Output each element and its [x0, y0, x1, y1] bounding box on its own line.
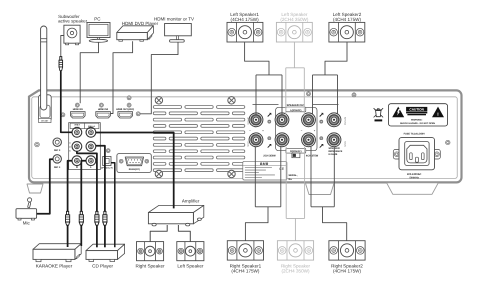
svg-text:PC: PC — [94, 16, 101, 21]
svg-text:Amplifier: Amplifier — [182, 198, 200, 203]
binding post top 1 — [249, 113, 263, 127]
Left Speaker box (amp) — [177, 242, 204, 261]
small screw right panel — [446, 140, 450, 144]
screw left of HDMI row — [61, 113, 65, 117]
svg-text:MIC 3: MIC 3 — [54, 149, 61, 152]
svg-text:(4CH4 175W): (4CH4 175W) — [231, 17, 260, 22]
HDMI IN1 port — [71, 112, 86, 118]
screw above HDMI OUT — [127, 103, 131, 107]
PC monitor — [87, 23, 110, 38]
svg-text:Right Speaker1: Right Speaker1 — [230, 263, 262, 268]
speaker wire Left Speaker gray to posts — [293, 42, 295, 68]
big panel screw bottom-left of grille — [155, 170, 162, 177]
svg-text:HDMI OUT(ARC): HDMI OUT(ARC) — [116, 108, 134, 111]
cable row2-right to CD (right) — [96, 146, 105, 212]
svg-text:KARAOKE Player: KARAOKE Player — [36, 264, 73, 269]
svg-text:4CH 375W: 4CH 375W — [306, 154, 319, 157]
KARAOKE player — [33, 244, 81, 250]
SPEAKER OUT label — [253, 104, 279, 106]
cable AUX R to KARAOKE (right) — [81, 161, 86, 212]
screw above HDMI IN1 — [75, 103, 79, 107]
small screw top strip near x356 — [352, 93, 356, 97]
screw right of HDMI row — [136, 112, 140, 116]
svg-text:IMPEDANCE: IMPEDANCE — [329, 150, 343, 153]
subwoofer cable to PRE R jack — [61, 71, 72, 133]
binding post top 2 — [275, 113, 289, 127]
svg-text:No.: No. — [289, 178, 293, 181]
RCA jack AUX row2 left — [72, 142, 82, 152]
speaker wire posts to Right Speaker gray — [285, 147, 287, 219]
speaker wire posts to Right Speaker2 — [310, 147, 312, 207]
Right Speaker box (amp) — [137, 242, 164, 261]
svg-text:Left Speaker: Left Speaker — [177, 264, 204, 269]
Right Speaker2 box — [329, 241, 365, 260]
Left Speaker 2ch gray — [276, 22, 312, 42]
svg-text:R: R — [76, 166, 78, 169]
screw above HDMI IN2 — [99, 103, 103, 107]
svg-text:L(SUB): L(SUB) — [246, 141, 249, 147]
RCA jack AUX row2 right — [86, 142, 96, 152]
wire DVD to HDMI IN2 — [111, 41, 133, 113]
svg-text:SERIAL,: SERIAL, — [289, 174, 298, 177]
svg-text:RS232(PC): RS232(PC) — [129, 168, 140, 171]
screw above optical — [106, 149, 110, 153]
svg-text:(4CH4 175W): (4CH4 175W) — [333, 17, 362, 22]
RCA jack PRE R — [72, 127, 82, 137]
big panel screw top-left of grille — [155, 97, 162, 104]
RCA plug on KARAOKE right cable — [80, 211, 82, 214]
arrow mark bottom-right pair — [320, 145, 323, 148]
label box PRE R (S.W) — [70, 123, 84, 128]
svg-text:Right Speaker: Right Speaker — [135, 264, 165, 269]
svg-text:WARNING:: WARNING: — [411, 119, 423, 122]
amplifier output wire right — [178, 225, 190, 242]
RCA jack block outline — [69, 123, 101, 170]
svg-text:HDMI monitor or TV: HDMI monitor or TV — [154, 17, 194, 22]
CD player — [86, 244, 125, 250]
svg-text:CD Player: CD Player — [92, 264, 113, 269]
svg-text:MIC 4: MIC 4 — [54, 166, 61, 169]
big panel screw top-right of grille — [228, 97, 235, 104]
amplifier output wire left — [150, 225, 167, 242]
wire PC to HDMI IN1 — [80, 42, 98, 103]
svg-text:(2CH4 350W): (2CH4 350W) — [280, 17, 309, 22]
binding post top 3 — [302, 113, 316, 127]
binding post bottom 1 — [249, 133, 263, 147]
AC inlet — [393, 150, 400, 160]
Right Speaker1 box — [227, 241, 263, 260]
svg-text:R(FRONT): R(FRONT) — [343, 117, 346, 126]
svg-text:(4CH4 175W): (4CH4 175W) — [333, 269, 362, 274]
subwoofer cable upper — [61, 36, 64, 57]
svg-text:2CH 350W: 2CH 350W — [263, 154, 276, 157]
Left Speaker1 — [227, 22, 263, 42]
RCA jack PRE L/1 — [86, 127, 96, 137]
MIC 3 jack — [53, 138, 61, 146]
cable row2-left to CD (left) — [77, 151, 97, 211]
arrow mark bottom-left pair — [268, 145, 271, 148]
svg-text:BT ANT: BT ANT — [41, 120, 49, 123]
svg-text:(2CH4 350W): (2CH4 350W) — [281, 269, 310, 274]
optical cable to CD — [111, 163, 115, 248]
RCA plug on CD left cable — [96, 211, 98, 214]
tiny screw between bottom posts — [268, 137, 271, 140]
arrow mark top-left pair — [268, 114, 271, 117]
svg-text:CE: CE — [279, 167, 285, 171]
RCA jack AUX R — [72, 156, 82, 166]
BMB rating label — [243, 161, 287, 180]
arrow mark top-right pair — [320, 114, 323, 117]
OPTICAL IN connector — [103, 157, 111, 166]
BT antenna mount — [39, 95, 52, 121]
binding post bottom 4 — [327, 133, 341, 147]
amplifier — [148, 205, 203, 212]
svg-text:8 OHMS: 8 OHMS — [329, 153, 338, 156]
CAUTION safety label — [388, 104, 447, 126]
HDMI OUT(ARC) port — [118, 112, 133, 118]
svg-text:FUSE T6.3AL/250V: FUSE T6.3AL/250V — [404, 132, 426, 135]
RCA jack AUX L — [86, 156, 96, 166]
small screw top strip near x129 — [127, 96, 131, 100]
RS232 connector — [117, 154, 151, 173]
Left Speaker2 — [329, 22, 365, 42]
speaker wire Left Speaker1 to posts — [245, 42, 269, 75]
wire TV to HDMI OUT — [140, 42, 178, 114]
Right Speaker 2ch gray box — [277, 241, 313, 260]
speaker wire Left Speaker2 to posts — [325, 42, 347, 75]
small screw left panel — [35, 142, 40, 147]
svg-text:active speaker: active speaker — [58, 19, 88, 24]
MIC 4 jack — [53, 155, 61, 163]
svg-text:L(2CH/4C): L(2CH/4C) — [290, 109, 301, 112]
panel foot left — [27, 184, 43, 193]
svg-text:Mic: Mic — [23, 221, 31, 226]
binding post bottom 2 — [275, 133, 289, 147]
antenna rod — [41, 26, 47, 110]
svg-text:SHOCK HAZARD - DO NOT OPEN: SHOCK HAZARD - DO NOT OPEN — [400, 122, 435, 125]
BT ANT label — [39, 118, 51, 122]
small screw top strip near x308 — [307, 92, 311, 96]
receiver back panel chassis — [29, 90, 462, 182]
microphone icon — [28, 198, 32, 202]
subwoofer active speaker — [64, 25, 80, 43]
RCA plug on CD right cable — [104, 211, 106, 214]
svg-text:Right Speaker2: Right Speaker2 — [331, 263, 363, 268]
svg-text:R(SUB): R(SUB) — [343, 141, 346, 147]
mic cable — [37, 159, 54, 214]
HDMI IN2 port — [96, 112, 111, 118]
speaker out L/R group box — [276, 107, 317, 150]
RCA plug on KARAOKE left cable — [67, 211, 69, 214]
svg-text:(4CH4 175W): (4CH4 175W) — [231, 269, 260, 274]
cable AUX L to KARAOKE (left) — [68, 161, 72, 212]
svg-text:HDMI IN2: HDMI IN2 — [98, 108, 109, 111]
Mic box — [16, 209, 37, 219]
subwoofer cable plug — [60, 57, 62, 61]
tiny screw between top posts — [268, 120, 271, 123]
binding post bottom 3 — [302, 133, 316, 147]
cable PRE L/1 to amplifier — [96, 133, 174, 209]
svg-text:CAUTION: CAUTION — [409, 108, 424, 112]
svg-text:L(FRONT): L(FRONT) — [246, 117, 249, 125]
svg-text:HDMI IN1: HDMI IN1 — [73, 108, 84, 111]
HDMI DVD player — [117, 26, 154, 33]
svg-text:50/60Hz: 50/60Hz — [410, 176, 420, 179]
panel foot right — [387, 183, 439, 195]
svg-text:HDMI DVD Player: HDMI DVD Player — [122, 21, 159, 26]
panel foot center — [306, 183, 335, 194]
ventilation grille — [153, 106, 181, 109]
svg-text:Right Speaker: Right Speaker — [281, 263, 311, 268]
svg-text:OPTICAL IN: OPTICAL IN — [101, 167, 113, 170]
HDMI monitor or TV — [165, 24, 192, 36]
WEEE crossed bin symbol — [374, 108, 384, 117]
big panel screw bottom-right of grille — [228, 170, 235, 177]
binding post top 4 — [327, 113, 341, 127]
label box PRE L/1 — [84, 123, 99, 128]
speaker wire posts to Right Speaker1 — [254, 147, 256, 207]
